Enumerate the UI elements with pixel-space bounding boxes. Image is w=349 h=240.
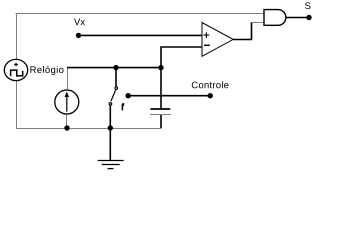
wire current source corner to switch top node <box>67 67 161 69</box>
wire capacitor bottom lead <box>160 115 162 128</box>
label Controle <box>192 81 229 88</box>
junction capacitor top <box>158 65 163 70</box>
junction current source bottom <box>64 125 69 130</box>
current source I1 <box>55 90 79 114</box>
wire node to op-amp minus input <box>161 47 202 68</box>
capacitor C1 <box>150 109 171 115</box>
label Relogio <box>30 66 63 75</box>
wire AND gate output to S <box>286 17 309 19</box>
wire switch bottom lead <box>109 105 111 128</box>
wire capacitor top lead <box>160 68 162 109</box>
AND gate U2 <box>264 10 286 26</box>
wire ground lead <box>109 128 111 160</box>
wire current source bottom lead <box>66 114 68 128</box>
wire bottom ground rail <box>16 128 162 130</box>
label Vx <box>74 19 85 26</box>
wire switch control to Controle node <box>128 95 210 97</box>
switch S1 <box>109 87 118 105</box>
wire top rail (clock to AND gate input) <box>16 13 265 15</box>
ground <box>98 161 124 169</box>
wire Vx to op-amp plus input <box>78 34 202 36</box>
clock source V1 (Relogio) <box>4 59 27 80</box>
junction switch top <box>113 65 118 70</box>
wire AND gate lower input pin stub <box>252 22 265 24</box>
junction ground <box>108 125 113 130</box>
op-amp comparator U1 <box>202 23 233 57</box>
wire switch top lead <box>115 68 117 87</box>
node S output <box>306 15 311 20</box>
label S <box>305 2 310 9</box>
node switch control <box>126 93 131 98</box>
wire current source top lead <box>67 68 69 91</box>
wire op-amp output to AND gate corner <box>233 22 252 39</box>
wire left rail <box>16 13 18 129</box>
label switch key f <box>122 103 124 110</box>
node Controle <box>208 93 213 98</box>
node Vx <box>76 33 81 38</box>
